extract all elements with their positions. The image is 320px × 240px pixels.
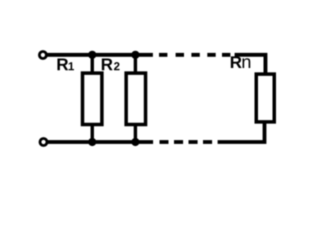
wire stub bottom of R2: [134, 125, 137, 142]
wire bottom solid right segment with corner up to Rn: [218, 123, 265, 143]
label R2 subscript 2: [114, 62, 120, 70]
wire bottom solid left segment: [47, 140, 153, 144]
terminal J2 (bottom-left open circle): [40, 139, 47, 146]
wire top solid left segment: [47, 53, 153, 57]
wire stub bottom of R1: [91, 125, 94, 142]
wire bottom dashed segment: [160, 140, 213, 144]
node junction dot top of R2: [131, 51, 139, 59]
wire top solid right segment with corner down to Rn: [235, 55, 266, 74]
label R1 subscript 1: [69, 62, 74, 70]
resistor R1 body: [83, 73, 102, 124]
terminal J1 (top-left open circle): [39, 52, 46, 59]
label Rn letter n: [243, 58, 251, 68]
label R1: [57, 59, 68, 71]
wire stub top of R1: [91, 55, 94, 74]
label Rn: [231, 56, 242, 68]
node junction dot bottom of R1: [88, 138, 96, 146]
wire top dashed segment: [159, 53, 230, 57]
label R2: [102, 59, 113, 71]
resistor R2 body: [126, 73, 145, 124]
node junction dot top of R1: [88, 51, 96, 59]
wire stub top of R2: [134, 55, 137, 74]
node junction dot bottom of R2: [131, 138, 139, 146]
resistor Rn body: [256, 74, 274, 122]
